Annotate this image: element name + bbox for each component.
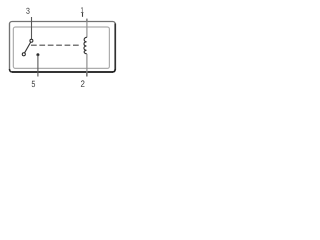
inner body outline	[13, 27, 109, 68]
switch blade end circle	[22, 53, 25, 56]
pin 1 number label	[81, 7, 84, 13]
pin 2 number label	[81, 80, 85, 86]
relay K1 schematic	[0, 0, 125, 96]
pin 5 number label	[32, 81, 35, 87]
pin 3 number label	[26, 8, 29, 14]
pin 3 wire	[31, 17, 33, 39]
component body shadow bottom edge	[12, 71, 113, 73]
component body bottom-right corner	[113, 69, 116, 72]
switch fixed contact circle (pin 3)	[30, 39, 33, 42]
switch blade	[25, 42, 31, 53]
pin 2 outer stub	[86, 73, 88, 77]
component body shadow right edge	[114, 24, 116, 70]
pin 5 wire	[37, 55, 39, 77]
pin 1 stub	[82, 13, 84, 17]
component body bottom-left corner	[10, 69, 13, 72]
mechanical linkage dashed line	[31, 44, 79, 46]
coil L1	[84, 37, 87, 54]
switch contact dot (pin 5)	[36, 53, 39, 56]
coil bottom lead / pin 2 wire	[86, 54, 88, 77]
component body outer box	[10, 22, 116, 73]
coil top lead	[86, 19, 88, 22]
